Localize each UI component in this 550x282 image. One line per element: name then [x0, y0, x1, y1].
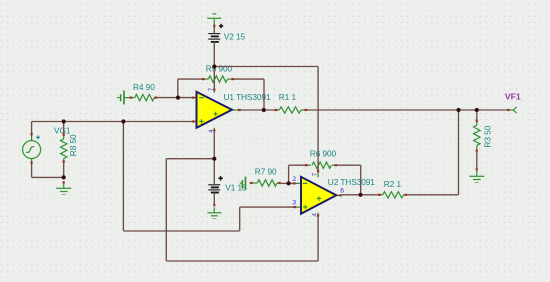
plus VG1 (teal) [36, 135, 40, 139]
tick R1 right [304, 109, 307, 111]
tick R8 top [63, 133, 65, 136]
tick U2 pin3 [293, 206, 296, 208]
svg-text:R8 50: R8 50 [68, 134, 78, 156]
wire U2 feedback top right lead [337, 164, 361, 166]
tick U2 output [339, 194, 342, 196]
tick U1 pin4 [213, 129, 215, 132]
svg-text:R1 1: R1 1 [279, 92, 297, 102]
wire R7 to U2 inverting node [281, 182, 293, 184]
svg-text:VG1: VG1 [54, 126, 71, 136]
R6 leads [308, 164, 311, 166]
tick U2 pin7 [317, 170, 319, 173]
wire branch bottom horizontal [123, 230, 239, 232]
svg-text:R5 900: R5 900 [206, 64, 233, 74]
ground below R3 load [469, 171, 484, 183]
wire supply rail horizontal [214, 66, 318, 68]
svg-text:4: 4 [312, 213, 319, 217]
op-amp U2 THS3091 [301, 177, 336, 214]
wire VG1 bottom lead [31, 164, 33, 178]
R5 leads [205, 78, 209, 80]
VG1 top lead green [31, 135, 33, 141]
wire U1 pin4 down to V1 [213, 132, 215, 185]
wire main bus VG1 to U1 pin3 [32, 121, 193, 123]
tick R1 left [275, 109, 278, 111]
U2 pin2 lead [296, 182, 302, 184]
wire U1 output to R1 [240, 109, 274, 111]
wire supply rail vertical to U2 pin7 [317, 67, 319, 171]
wire R8 bottom [63, 163, 65, 177]
svg-text:4: 4 [208, 129, 215, 133]
svg-text:2: 2 [292, 176, 296, 183]
plus V2 [219, 25, 223, 27]
R7 leads [252, 182, 257, 184]
wire U2 feedback vertical left [288, 165, 290, 183]
node V2 rail junction [212, 64, 216, 68]
tick R7 jumper [250, 182, 253, 184]
svg-text:R7 90: R7 90 [255, 167, 277, 177]
R3 load leads [476, 122, 478, 125]
wire V1 bottom to ground [213, 193, 215, 204]
wire U1 feedback right vertical [263, 79, 265, 110]
svg-text:3: 3 [292, 199, 296, 206]
U2 pin7 lead [317, 172, 319, 177]
wire U2 feedback top left lead [289, 164, 305, 166]
node U2 inverting junction [287, 181, 291, 185]
wire V2 ground to battery [213, 27, 215, 34]
resistor R6 zigzag [312, 162, 331, 168]
tick U2 pin4 [317, 214, 319, 217]
jumper at R4 input [117, 91, 124, 105]
wire U1 feedback top left lead [178, 78, 202, 80]
ground below V1 [207, 207, 221, 219]
tick V1 ground [213, 204, 215, 207]
tick U1 pin2 [192, 96, 195, 98]
R8 leads [63, 136, 65, 139]
svg-text:R3 50: R3 50 [483, 125, 493, 147]
tick U1 pin7 [213, 88, 215, 91]
node U1 output junction [262, 108, 266, 112]
voltage source VG1 circle [23, 141, 41, 159]
resistor R7 zigzag [257, 180, 277, 186]
resistor R1 zigzag [279, 107, 301, 113]
node U1 inverting junction [176, 96, 180, 100]
wire V1 rail bottom horizontal [166, 260, 318, 262]
svg-text:V2 15: V2 15 [224, 31, 246, 41]
resistor R3 load zigzag (vertical) [474, 125, 480, 145]
node R8 bottom junction [62, 175, 66, 179]
tick R6 left [305, 164, 308, 166]
tick R8 bottom [63, 160, 65, 163]
node R8 top junction [62, 119, 66, 123]
tick VG1 bottom [31, 161, 33, 164]
resistor R5 zigzag [208, 76, 227, 82]
VF1 probe arrow [513, 107, 516, 113]
VF1 probe stub [510, 109, 513, 111]
tick R3 bottom [476, 149, 478, 152]
V2 ground stem lead [213, 25, 215, 28]
wire U1 feedback top right lead [234, 78, 264, 80]
tick R5 left [202, 78, 205, 80]
tick U2 pin2 [293, 182, 296, 184]
svg-text:R2 1: R2 1 [384, 179, 402, 189]
tick R4 right [154, 96, 157, 98]
node U2 output junction [358, 193, 362, 197]
node VF1 R2 junction [456, 108, 460, 112]
R4 leads [125, 97, 130, 99]
wire V1 rail left vertical [165, 159, 167, 261]
svg-text:U2 THS3091: U2 THS3091 [328, 177, 375, 187]
resistor R8 zigzag (vertical) [61, 139, 67, 159]
wire R4 to U1 inverting node [157, 97, 192, 99]
wire R1 to VF1 node [308, 109, 507, 111]
svg-text:VF1: VF1 [505, 91, 521, 101]
node branch junction [121, 119, 125, 123]
wire U2 output to R2 [342, 194, 378, 196]
U1 pin2 lead [195, 97, 198, 99]
wire R2 corner up to VF1 node [458, 110, 460, 195]
wire R3 load bottom [476, 152, 478, 168]
tick U1 output [238, 109, 241, 111]
battery V2 plates [208, 34, 220, 42]
wire VG1 top lead [31, 122, 33, 134]
R1 leads [278, 109, 280, 111]
VG1 bottom lead green [31, 158, 33, 161]
tick R6 right [334, 164, 337, 166]
V1 to ground lead [213, 204, 215, 207]
svg-text:6: 6 [340, 188, 344, 195]
wire V1 rail left horizontal [166, 158, 214, 160]
ground above V2 [207, 14, 221, 25]
resistor R2 zigzag [383, 192, 404, 198]
wire U2 feedback right vertical [360, 165, 362, 195]
svg-text:R6 900: R6 900 [310, 149, 337, 159]
U1 output lead [232, 109, 238, 111]
U1 pin4 lead [213, 128, 215, 130]
wire branch down from bus [122, 122, 124, 232]
wire V1 rail up to U2 pin4 [317, 217, 319, 262]
ground below R8/VG1 [56, 184, 71, 195]
tick VG1 ground [63, 181, 65, 184]
R2 leads [381, 194, 383, 196]
svg-text:R4 90: R4 90 [133, 82, 155, 92]
tick R2 left [378, 194, 381, 196]
tick R3 ground [476, 168, 478, 170]
wire V2 battery down to U1 pin7 [213, 42, 215, 89]
U2 output lead [336, 194, 339, 196]
wire U1 feedback vertical left [177, 79, 179, 98]
tick R4 left [130, 96, 133, 98]
R3 to ground lead [476, 168, 478, 171]
tick R5 right [231, 78, 234, 80]
wire VG1 bottom to R8 [32, 176, 64, 178]
wire to U2 pin3 [240, 206, 294, 208]
plus V1 [218, 177, 222, 179]
tick V2 top [213, 25, 215, 28]
wire R3 load top [476, 110, 478, 120]
node V1 rail junction [212, 157, 216, 161]
tick R2 right [404, 194, 407, 196]
battery V1 plates [208, 185, 220, 193]
node R3 load junction [475, 108, 479, 112]
svg-text:7: 7 [312, 172, 319, 176]
U1 pin3 lead [195, 121, 198, 123]
svg-text:7: 7 [208, 87, 215, 91]
resistor R4 zigzag [135, 94, 154, 100]
U2 pin3 lead [296, 206, 301, 208]
tick R7 right [278, 182, 281, 184]
U1 pin7 lead [213, 91, 215, 93]
tick U1 pin3 [192, 120, 195, 122]
op-amp U1 THS3091 [197, 92, 233, 128]
wire R8 top [63, 122, 65, 134]
wire R2 to corner [407, 194, 458, 196]
tick VG1 top [31, 133, 33, 136]
svg-text:V1 15: V1 15 [225, 182, 247, 192]
U2 pin4 lead [317, 213, 319, 215]
tick VF1 [507, 109, 510, 111]
wire branch up to U2 pin3 level [239, 207, 241, 231]
jumper at R7 input [240, 177, 246, 190]
tick R3 top [476, 120, 478, 123]
